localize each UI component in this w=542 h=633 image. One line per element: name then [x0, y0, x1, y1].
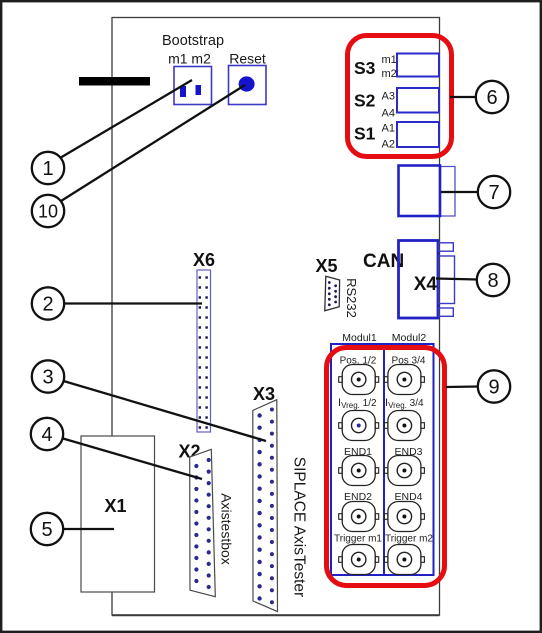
svg-text:S1: S1 [354, 124, 376, 144]
label Pos 1/2 [340, 356, 377, 367]
svg-text:10: 10 [38, 201, 58, 221]
label Ivreg 1/2 [338, 397, 377, 410]
svg-text:4: 4 [41, 424, 52, 446]
label RS232 rotated [344, 278, 359, 318]
switch S3 label [354, 58, 376, 78]
module column box 1 [331, 344, 384, 575]
label END2 [344, 491, 372, 503]
leader 6 line [450, 96, 477, 98]
switch S1 label [354, 124, 376, 144]
svg-text:Trigger m2: Trigger m2 [385, 534, 433, 545]
svg-text:2: 2 [42, 294, 53, 316]
svg-text:9: 9 [488, 377, 499, 399]
BNC END3 [384, 456, 424, 486]
X4 right tabs [439, 243, 455, 316]
svg-text:m1: m1 [382, 54, 397, 66]
connector X2 [190, 449, 216, 596]
label X5 [316, 256, 338, 276]
label END1 [344, 446, 372, 458]
callout 3 [32, 360, 64, 392]
svg-text:m2: m2 [382, 68, 397, 80]
switch S1 body [397, 122, 439, 147]
leader 7 line [441, 191, 479, 193]
red highlight box BNC field [327, 348, 445, 586]
svg-text:7: 7 [488, 182, 499, 204]
svg-text:Bootstrap: Bootstrap [162, 33, 224, 49]
label X1 [104, 496, 126, 516]
leader 1 line [60, 80, 192, 158]
label X3 [253, 384, 275, 404]
svg-text:S3: S3 [354, 58, 376, 78]
connector X6 [197, 270, 211, 432]
connector X1 [81, 436, 155, 592]
svg-text:A2: A2 [382, 139, 395, 151]
BNC Trigger m2 [384, 545, 424, 575]
BNC Ivreg 3/4 [384, 411, 424, 441]
svg-text:A1: A1 [382, 123, 395, 135]
leader 8 line [436, 279, 478, 280]
S1 pin labels A1 A2 [382, 123, 395, 151]
svg-text:5: 5 [41, 519, 52, 541]
label END4 [394, 491, 422, 503]
leader 10 line [61, 85, 245, 201]
callout 7 [478, 176, 510, 208]
svg-text:6: 6 [486, 87, 497, 109]
svg-text:X3: X3 [253, 384, 275, 404]
label Bootstrap [162, 33, 224, 49]
connector X3 [253, 400, 278, 612]
svg-text:m1 m2: m1 m2 [168, 51, 211, 67]
svg-text:Modul2: Modul2 [392, 332, 427, 344]
svg-text:X1: X1 [104, 496, 126, 516]
label Trigger m2 [385, 534, 433, 545]
svg-text:Trigger m1: Trigger m1 [334, 534, 382, 545]
switch S2 label [354, 91, 376, 111]
leader 4 line [63, 439, 202, 480]
BNC END2 [339, 502, 379, 532]
callout 9 [478, 370, 510, 402]
BNC END1 [339, 456, 379, 486]
connector block 7 main [399, 166, 441, 217]
callout 4 [31, 418, 63, 450]
BNC Trigger m1 [339, 545, 379, 575]
BNC Ivreg 1/2 [339, 411, 379, 441]
switch S2 body [397, 88, 439, 113]
label Modul1 [342, 332, 377, 344]
reset button [229, 66, 267, 105]
label X6 [193, 250, 215, 270]
svg-text:Axistestbox: Axistestbox [219, 493, 235, 565]
svg-text:X4: X4 [414, 274, 438, 295]
label CAN [363, 251, 404, 272]
callout 2 [32, 287, 64, 319]
svg-text:X6: X6 [193, 250, 215, 270]
connector X5 DB9 [325, 276, 340, 311]
label END3 [394, 446, 422, 458]
label X2 [179, 442, 201, 462]
leader 2 line [64, 302, 202, 304]
switch S3 body [397, 54, 439, 77]
label Reset [229, 51, 266, 67]
S3 pin labels m1 m2 [382, 54, 397, 80]
svg-text:X5: X5 [316, 256, 338, 276]
callout 5 [31, 513, 63, 545]
svg-text:Reset: Reset [229, 51, 266, 67]
connector block 7 outer thin [440, 167, 455, 217]
S2 pin labels A3 A4 [382, 91, 395, 120]
callout 10 [32, 195, 64, 227]
svg-text:RS232: RS232 [344, 278, 359, 318]
label Modul2 [392, 332, 427, 344]
svg-text:Modul1: Modul1 [342, 332, 377, 344]
label m1 m2 [168, 51, 211, 67]
leader 3 line [64, 381, 267, 441]
connector X4 body [399, 241, 439, 319]
svg-text:8: 8 [487, 270, 498, 292]
svg-text:1: 1 [42, 158, 53, 180]
red highlight box switches [348, 36, 452, 157]
BNC Pos 3/4 [384, 365, 424, 395]
label Axistestbox rotated [219, 493, 235, 565]
label SIPLACE AxisTester rotated [291, 457, 308, 597]
svg-text:A3: A3 [382, 91, 395, 103]
svg-text:SIPLACE AxisTester: SIPLACE AxisTester [291, 457, 308, 597]
svg-text:S2: S2 [354, 91, 376, 111]
label X4 [414, 274, 438, 295]
bootstrap jumper block [174, 67, 212, 105]
callout 1 [32, 152, 64, 184]
leader 9 line [446, 385, 479, 388]
svg-text:A4: A4 [382, 108, 395, 120]
svg-text:3: 3 [42, 367, 53, 389]
leader 5 line [63, 528, 114, 530]
module column box 2 [384, 344, 434, 575]
callout 8 [477, 264, 509, 296]
BNC Pos 1/2 [339, 365, 379, 395]
label Pos 3/4 [392, 356, 426, 367]
label Ivreg 3/4 [385, 397, 424, 410]
BNC END4 [384, 502, 424, 532]
board outline [112, 18, 440, 616]
label Trigger m1 [334, 534, 382, 545]
black handle bar [79, 77, 150, 86]
callout 6 [476, 81, 508, 113]
